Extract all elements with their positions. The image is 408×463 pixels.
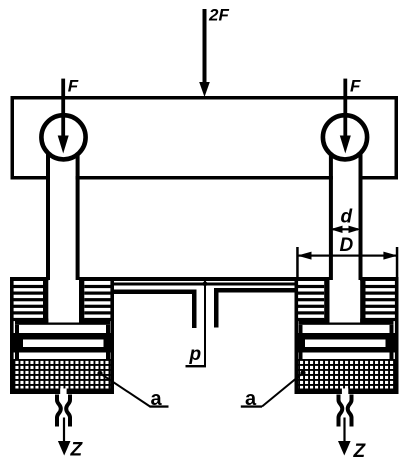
a right underline (241, 405, 262, 407)
left cylinder assembly (10, 79, 114, 456)
p junction dot (203, 281, 208, 286)
p leader line (204, 281, 206, 367)
svg-text:D: D (340, 235, 354, 256)
pipe second line between cylinders (114, 283, 295, 286)
svg-text:p: p (189, 344, 202, 365)
svg-text:Z: Z (70, 439, 84, 460)
a right leader (262, 373, 303, 407)
dimension D line (297, 255, 397, 257)
D arrowheads (297, 252, 311, 260)
svg-text:F: F (68, 76, 79, 95)
svg-text:Z: Z (353, 441, 367, 462)
branch left wall (192, 290, 197, 329)
right cylinder assembly (mirrored) (295, 79, 399, 456)
branch right wall (214, 288, 219, 328)
D extension line left (296, 247, 299, 280)
svg-text:d: d (341, 206, 353, 227)
svg-text:2F: 2F (208, 6, 229, 25)
a left underline (150, 405, 169, 407)
pipe top line between cylinders (114, 277, 295, 281)
svg-text:F: F (350, 76, 361, 95)
pipe bottom line right segment (219, 288, 295, 293)
a left leader (100, 373, 150, 406)
pipe bottom line left segment (114, 290, 197, 295)
2F arrowhead (199, 82, 210, 97)
D extension line right (396, 247, 399, 280)
beam (loading platen) (12, 98, 396, 178)
2F arrow line (203, 9, 207, 85)
dimension d arrows (333, 228, 358, 230)
p underline (186, 365, 207, 367)
